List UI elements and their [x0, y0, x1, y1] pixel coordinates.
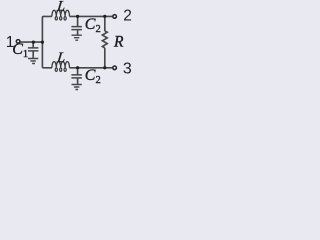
capacitor C1 plates: [28, 48, 39, 51]
resistor R lower lead: [104, 48, 106, 68]
background: [0, 0, 136, 94]
ground below lower C2: [72, 85, 82, 90]
resistor R zigzag: [102, 31, 107, 48]
junction dot: input node on bus: [41, 40, 44, 43]
capacitor C2 (upper) top lead: [77, 16, 79, 26]
terminal 3 circle: [113, 66, 117, 70]
junction dot: upper C2 tap: [76, 15, 79, 18]
junction dot: C1 tap: [32, 40, 35, 43]
capacitor C2 (lower) plates: [71, 75, 82, 78]
capacitor C1 upper lead: [32, 42, 34, 47]
svg-text:R: R: [113, 33, 124, 50]
ground below C1: [28, 59, 38, 64]
capacitor C2 (lower) top lead: [77, 68, 79, 75]
resistor R upper lead: [104, 16, 106, 31]
terminal 1 circle: [16, 40, 20, 44]
capacitor C2 (upper) plates: [71, 27, 82, 30]
svg-text:3: 3: [123, 61, 132, 78]
wire: bottom row, inductor to terminal 3: [70, 67, 113, 69]
inductor L2 (bottom): [52, 62, 70, 72]
ground below upper C2: [72, 35, 82, 40]
svg-text:2: 2: [123, 8, 132, 25]
inductor L1 (top): [52, 10, 70, 20]
terminal 2 circle: [113, 15, 117, 19]
wire: terminal 1 to input node: [20, 41, 42, 43]
wire: left vertical bus with corners: [42, 16, 52, 67]
junction dot: R top node: [103, 15, 106, 18]
wire: top row, inductor to terminal 2: [70, 15, 113, 17]
capacitor C2 (lower) lower lead: [77, 78, 79, 84]
junction dot: lower C2 tap: [76, 66, 79, 69]
capacitor C1 lower lead: [32, 51, 34, 58]
capacitor C2 (upper) lower lead: [77, 30, 79, 34]
junction dot: R bottom node: [103, 66, 106, 69]
